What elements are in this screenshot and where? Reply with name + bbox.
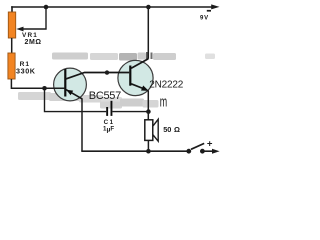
node: VR1 wiper junction on top rail (44, 5, 49, 10)
switch S1 lever (191, 143, 204, 149)
speaker LS1 cone (153, 119, 158, 141)
transistor Q2 base bar (129, 66, 131, 86)
transistor Q1 emitter stroke (PNP arrow toward bar) (66, 90, 82, 99)
node: C1/emitter junction (146, 109, 151, 114)
transistor Q1 collector stroke to 2N2222 base (66, 73, 129, 79)
svg-text:2N2222: 2N2222 (149, 80, 183, 91)
transistor Q2 collector stroke (131, 59, 148, 69)
node: collector junction on top rail (146, 5, 151, 10)
wire: BC557 emitter down to bottom rail (81, 98, 83, 151)
potentiometer VR1 body (8, 12, 15, 38)
wire: VR1 top lead (11, 6, 13, 13)
wire: R1 bottom to BC557 base (11, 79, 64, 88)
node: speaker junction on bottom rail (146, 149, 151, 154)
svg-text:BC557: BC557 (89, 90, 121, 102)
svg-text:2MΩ: 2MΩ (25, 39, 42, 46)
switch S1 right contact (200, 149, 205, 154)
transistor Q1 base bar (64, 69, 66, 97)
resistor R1 body (8, 53, 15, 79)
wire: top supply rail (11, 6, 213, 8)
arrow: VR1 wiper arrowhead (16, 27, 23, 32)
terminal arrow (battery + terminal) (212, 149, 220, 154)
wire: 2N2222 collector up to rail (147, 7, 149, 59)
switch S1 left contact (186, 149, 191, 154)
wire: C1 right plate to emitter line (112, 111, 149, 113)
transistor Q1 BC557 circle (54, 68, 87, 101)
wire: bottom rail (81, 150, 189, 152)
wire: VR1 wiper (22, 7, 46, 29)
terminal arrow (9V negative rail) (211, 4, 219, 9)
wire: 2N2222 emitter down to speaker (147, 91, 149, 121)
transistor Q2 2N2222 circle (118, 60, 153, 95)
wire: speaker to bottom rail (147, 140, 149, 152)
label: minus sign (207, 10, 211, 12)
svg-text:m: m (160, 94, 167, 111)
wire: junction down to C1 left plate (45, 88, 107, 111)
transistor Q2 emitter stroke (NPN arrow out) (131, 84, 144, 89)
node: dot on collector-base link (105, 70, 109, 74)
svg-text:330K: 330K (16, 67, 36, 76)
capacitor C1 right plate (111, 101, 113, 116)
wire: switch to battery terminal (202, 150, 213, 152)
svg-text:VR1: VR1 (22, 32, 38, 39)
watermark decorative band (no circuit meaning) (18, 52, 215, 111)
svg-text:9V: 9V (200, 15, 209, 21)
speaker LS1 body (145, 120, 153, 141)
node: base/capacitor junction (42, 86, 47, 91)
wire: VR1 to R1 (11, 38, 13, 54)
svg-text:1µF: 1µF (103, 126, 114, 134)
svg-text:+: + (207, 138, 213, 149)
capacitor C1 left plate (106, 107, 108, 116)
